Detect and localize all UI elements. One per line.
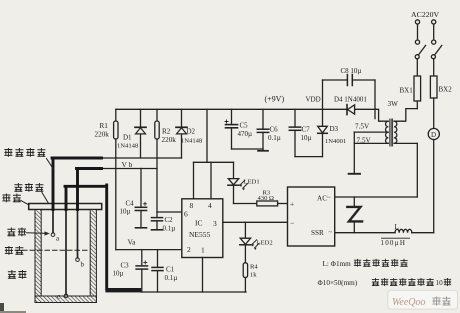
svg-text:C4: C4 <box>126 200 135 208</box>
diode D2 1N4148 <box>176 109 203 158</box>
svg-text:470µ: 470µ <box>238 130 253 138</box>
svg-text:C8 10µ: C8 10µ <box>341 67 362 75</box>
svg-text:3: 3 <box>213 219 217 228</box>
scan artifact blob left edge <box>0 303 4 312</box>
wire pin6 line <box>157 211 182 213</box>
svg-text:L: Φ1mm: L: Φ1mm <box>323 260 352 268</box>
svg-text:4: 4 <box>208 201 212 210</box>
fuse BX2 <box>430 76 452 128</box>
svg-text:D1: D1 <box>123 134 132 142</box>
indicator lamp D <box>428 128 439 232</box>
svg-text:LED2: LED2 <box>257 240 273 247</box>
label pool wall (chi bi) <box>8 270 26 278</box>
svg-text:C1: C1 <box>166 266 175 274</box>
svg-text:1: 1 <box>201 245 205 254</box>
svg-text:BX2: BX2 <box>439 86 453 94</box>
tank right wall <box>90 210 96 303</box>
svg-text:220k: 220k <box>162 136 177 144</box>
label fixing wire (gu ding xian) <box>15 183 48 202</box>
svg-text:D3: D3 <box>330 125 339 133</box>
svg-text:L: L <box>395 223 399 231</box>
capacitor C7 10u <box>289 109 322 156</box>
svg-text:220k: 220k <box>95 131 110 139</box>
diode D1 1N4148 <box>117 109 146 158</box>
svg-text:C7: C7 <box>302 126 311 134</box>
watermark WeeQoo <box>388 290 458 309</box>
capacitor C2 0.1u <box>152 212 176 233</box>
wire +9V top rail <box>116 108 375 110</box>
wire pins 8/4 supply bridge <box>194 109 234 199</box>
plug and switch pole 1 <box>415 20 425 76</box>
svg-text:3W: 3W <box>388 100 399 108</box>
svg-text:~: ~ <box>329 229 333 236</box>
svg-text:0.1µ: 0.1µ <box>163 225 176 233</box>
diode D3 1N4001 <box>318 109 347 156</box>
label electrode (dian ji) with arrow <box>8 228 50 236</box>
transformer T 3W <box>354 100 417 146</box>
svg-text:V b: V b <box>122 160 133 169</box>
LED2 <box>240 222 273 262</box>
svg-text:0.1µ: 0.1µ <box>268 134 281 142</box>
svg-text:VDD: VDD <box>306 96 321 104</box>
label liquid level (ye wei) <box>5 246 23 254</box>
electrode b <box>76 210 85 269</box>
svg-text:Φ10×50(mm): Φ10×50(mm) <box>318 279 358 287</box>
svg-text:1k: 1k <box>250 272 257 279</box>
wire node Va line <box>116 249 182 251</box>
wire thick lead from electrode a <box>52 158 102 210</box>
primary bottom lead <box>394 142 417 144</box>
svg-text:IC: IC <box>195 219 203 228</box>
op-amp U1 IC NE555 box <box>182 199 223 258</box>
primary winding <box>394 121 397 143</box>
svg-text:7.5V: 7.5V <box>355 123 370 131</box>
capacitor C8 10u top loop <box>323 67 376 119</box>
svg-text:1N4148: 1N4148 <box>181 138 203 145</box>
wire SSR bottom output <box>335 232 395 234</box>
capacitor C4 10u <box>120 169 147 228</box>
svg-text:+: + <box>290 200 294 209</box>
svg-text:430 Ω: 430 Ω <box>258 195 275 202</box>
svg-text:100µH: 100µH <box>381 239 407 247</box>
SSR box <box>288 187 335 246</box>
svg-text:R2: R2 <box>162 128 171 136</box>
resistor R4 1k <box>243 263 258 292</box>
secondary center tap lead 7.5V <box>354 131 388 133</box>
primary top lead <box>394 109 417 122</box>
diode D4 1N4001 on rail <box>334 96 367 115</box>
scan artifact bottom edge smudge <box>0 311 26 313</box>
svg-text:c: c <box>57 293 60 301</box>
resistor R3 430ohm <box>234 190 288 206</box>
capacitor C3 10u <box>113 250 148 292</box>
LED1 <box>228 162 260 203</box>
secondary bottom lead <box>354 142 388 144</box>
electrode c <box>57 210 68 301</box>
liquid level dashed line <box>15 249 90 251</box>
label wooden stick (mu bang) <box>3 194 29 205</box>
wire thick ground rail segment <box>105 288 141 292</box>
tank wooden bar <box>29 204 102 210</box>
svg-text:WeeQoo: WeeQoo <box>392 297 426 308</box>
wire ground rail thin <box>141 291 246 293</box>
resistor R2 <box>155 109 176 212</box>
svg-text:~: ~ <box>327 195 331 202</box>
capacitor C6 0.1u <box>257 109 280 151</box>
svg-text:SSR: SSR <box>311 229 324 237</box>
capacitor C1 0.1u <box>152 250 177 292</box>
svg-text:10µ: 10µ <box>301 134 312 142</box>
fuse BX1 <box>400 76 421 109</box>
wire pin1 to ground rail <box>202 258 204 293</box>
svg-text:0.1µ: 0.1µ <box>165 274 178 282</box>
svg-text:LED1: LED1 <box>244 179 260 186</box>
wire thick lead from electrode b <box>77 169 102 210</box>
wire BX1 branch down to AC output <box>335 143 418 197</box>
wire pin3 line to SSR minus <box>223 221 288 223</box>
tank left wall <box>35 210 41 303</box>
tank bottom <box>35 296 96 303</box>
svg-text:10µ: 10µ <box>120 208 131 216</box>
svg-text:b: b <box>81 261 85 269</box>
svg-text:NE555: NE555 <box>189 230 210 239</box>
svg-text:6: 6 <box>184 210 188 219</box>
svg-text:C2: C2 <box>165 216 174 224</box>
svg-text:R1: R1 <box>100 122 109 130</box>
load Z varistor <box>347 197 362 233</box>
note line 1: L phi 1mm single strand copper wire <box>323 259 408 268</box>
svg-text:C3: C3 <box>121 262 130 270</box>
svg-text:10µ: 10µ <box>113 270 124 278</box>
svg-text:AC220V: AC220V <box>411 10 440 19</box>
svg-text:AC: AC <box>317 195 327 203</box>
svg-text:7.5V: 7.5V <box>357 137 372 145</box>
svg-text:10: 10 <box>436 279 444 287</box>
secondary top lead <box>375 109 388 121</box>
svg-text:8: 8 <box>190 201 194 210</box>
svg-text:2: 2 <box>187 245 191 254</box>
svg-text:D2: D2 <box>187 128 196 136</box>
svg-text:D4 1N4001: D4 1N4001 <box>334 96 367 104</box>
svg-text:−: − <box>290 219 294 228</box>
wire thick lead from electrode c to ground rail <box>65 185 107 289</box>
svg-text:C6: C6 <box>270 126 279 134</box>
svg-text:BX1: BX1 <box>400 87 414 95</box>
resistor R1 <box>95 109 119 249</box>
svg-text:C5: C5 <box>240 122 249 130</box>
svg-text:Va: Va <box>128 238 137 247</box>
label plastic wire (su pi dao xian) <box>5 148 54 170</box>
plug and switch pole 2 <box>431 20 441 76</box>
svg-text:1N4148: 1N4148 <box>117 143 139 150</box>
svg-text:(+9V): (+9V) <box>265 95 285 104</box>
secondary winding <box>386 121 389 143</box>
capacitor C5 470u <box>225 109 263 149</box>
svg-text:1N4001: 1N4001 <box>325 138 346 145</box>
inductor L 100uH <box>381 223 434 247</box>
transformer core <box>389 119 391 146</box>
electrode a <box>51 210 60 243</box>
wire node Vb line2 (electrode b net) <box>102 168 158 170</box>
ground (transformer center tap) <box>349 132 360 174</box>
svg-text:R4: R4 <box>250 264 258 271</box>
svg-text:D: D <box>431 131 436 139</box>
wire node Vb line1 (electrode a net) <box>102 157 182 159</box>
note line 2: phi 10x50(mm) wound 10 turns on rod <box>318 278 451 287</box>
